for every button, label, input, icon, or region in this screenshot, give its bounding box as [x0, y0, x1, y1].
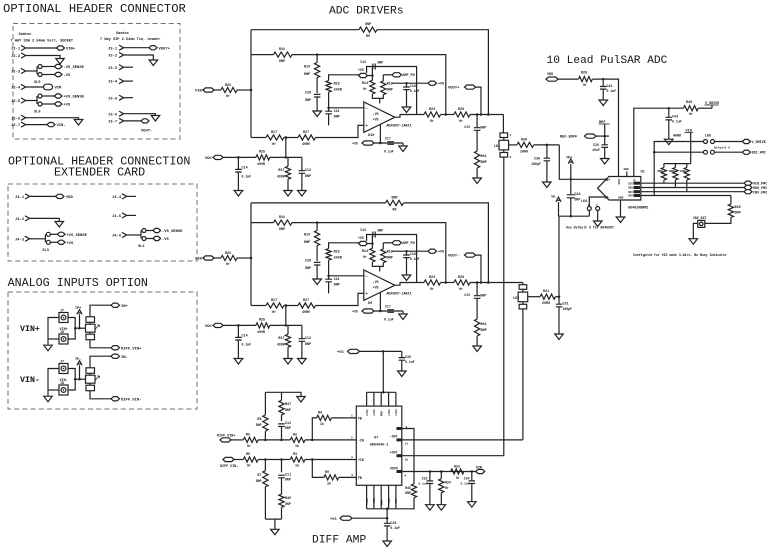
wire to junction [237, 257, 251, 259]
capacitor C17 0.1uF [387, 310, 394, 313]
ground [616, 217, 625, 223]
svg-text:+VS: +VS [337, 351, 344, 355]
svg-text:0r: 0r [583, 83, 587, 88]
svg-text:R25: R25 [259, 319, 265, 323]
wire upper network rail to gnd [265, 392, 301, 396]
svg-text:499R: 499R [277, 175, 285, 179]
svg-text:R7: R7 [257, 474, 261, 478]
svg-text:DNP: DNP [256, 423, 262, 427]
capacitor C17 0.1uF [387, 142, 394, 145]
svg-text:VIN+: VIN+ [66, 48, 76, 52]
svg-text:J3-2: J3-2 [108, 55, 118, 59]
ground [594, 221, 603, 227]
wire junction up to lower row [285, 138, 287, 158]
capacitor C20 DNP [314, 262, 321, 265]
svg-text:IN+: IN+ [121, 305, 129, 309]
svg-text:ADA4807-1ARJZ: ADA4807-1ARJZ [386, 123, 411, 127]
pin SDI_FMC [742, 150, 750, 154]
svg-text:FB: FB [358, 416, 362, 420]
svg-text:0r: 0r [445, 486, 449, 490]
wire [352, 517, 387, 519]
svg-text:-VS: -VS [63, 74, 71, 78]
svg-text:+VS_SENSE: +VS_SENSE [63, 96, 84, 100]
svg-text:J2-4: J2-4 [11, 87, 21, 91]
pin -VS [153, 236, 161, 240]
svg-text:C19: C19 [464, 293, 470, 297]
ground [284, 359, 292, 365]
svg-text:TP+: TP+ [566, 157, 572, 161]
node REF [603, 135, 606, 138]
wire [258, 439, 290, 441]
ADC right pins SCK SDO SDI CNV [634, 182, 641, 185]
svg-text:DNP: DNP [391, 196, 397, 200]
svg-text:R17: R17 [271, 131, 277, 135]
svg-text:LK2: LK2 [513, 297, 519, 301]
svg-text:R20: R20 [458, 276, 464, 280]
node input junction [250, 89, 253, 92]
wire VOUT+ down [476, 87, 482, 114]
wire to op-amp - [329, 275, 364, 277]
node C31 [558, 295, 561, 298]
wire R18 top [329, 75, 359, 81]
svg-text:DNP: DNP [680, 170, 686, 173]
svg-text:R15: R15 [387, 251, 393, 255]
capacitor C26 10uF [604, 136, 606, 144]
wire [316, 223, 318, 231]
node inverting input [327, 275, 330, 278]
wire jack left bracket [48, 369, 59, 397]
svg-text:GND: GND [623, 168, 628, 171]
svg-text:DNP: DNP [365, 23, 371, 27]
svg-text:+VS1: +VS1 [366, 409, 369, 416]
svg-text:C19: C19 [464, 125, 470, 129]
svg-text:R6: R6 [246, 433, 250, 437]
IC U7 ADA4940-1 [356, 406, 402, 485]
wire +VS to IC top [382, 351, 384, 392]
wire output node [470, 114, 503, 116]
resistor R23 0r [424, 112, 441, 117]
wire to pin 1 [331, 417, 356, 419]
svg-text:R27: R27 [303, 131, 309, 135]
solder pad [142, 229, 146, 233]
wire to IN+ [90, 305, 111, 317]
svg-text:+VS: +VS [66, 242, 74, 246]
wire pin8 to bottom rail via R45 [402, 429, 414, 484]
svg-text:J2-2: J2-2 [11, 55, 21, 59]
wire +VS rail to hexagon [392, 250, 428, 252]
svg-text:VOC: VOC [205, 325, 213, 329]
svg-text:C13: C13 [305, 169, 311, 173]
IC pin 10 +OUT [397, 454, 403, 457]
capacitor C43 0.1uF [668, 108, 670, 117]
solder pad [38, 65, 42, 69]
svg-text:C32: C32 [422, 477, 428, 481]
capacitor C32 0.1uF [429, 472, 431, 481]
svg-text:DNP: DNP [387, 89, 393, 93]
connector jack VIN+ B [59, 334, 68, 344]
svg-text:DNP: DNP [575, 198, 581, 202]
svg-text:TP-: TP- [75, 358, 81, 362]
resistor R37 DNP pullup [686, 164, 688, 168]
wire [406, 258, 408, 275]
solder pad [38, 94, 42, 98]
wire [237, 172, 239, 191]
capacitor C16 DNP [371, 235, 373, 244]
capacitor C30 180pF [544, 158, 551, 161]
wire [401, 360, 403, 371]
resistor R5 0r [243, 457, 258, 462]
wire LK1 bottom rail to diff amp +OUT [503, 158, 505, 456]
wire [668, 120, 670, 139]
svg-text:J4-2: J4-2 [15, 218, 25, 222]
svg-text:DNP: DNP [279, 60, 285, 64]
wire lower row [251, 305, 266, 307]
svg-text:R8: R8 [257, 418, 261, 422]
svg-text:+VS: +VS [373, 118, 379, 122]
svg-text:DNP: DNP [378, 229, 384, 233]
svg-text:0r: 0r [247, 444, 251, 449]
node fb [445, 281, 448, 284]
resistor R16 DNP [274, 52, 293, 57]
svg-text:+VS: +VS [330, 518, 337, 522]
resistor R33 0r [451, 469, 464, 474]
link resistor top [86, 317, 95, 323]
resistor R31 20R0 [540, 294, 555, 299]
node TP IN+ [570, 178, 573, 181]
capacitor C44 DNP [570, 179, 572, 194]
wire [214, 257, 221, 259]
svg-text:R16: R16 [279, 48, 285, 52]
wire [270, 156, 302, 158]
wire pullup rail [664, 163, 691, 165]
svg-text:U1: U1 [641, 171, 645, 175]
wire [316, 265, 318, 279]
svg-text:R18: R18 [334, 83, 340, 87]
pin VIN- [47, 123, 55, 127]
svg-text:Use Default 0 for AD4000f.: Use Default 0 for AD4000f. [566, 226, 616, 230]
wire LK4 pad1 stem [588, 211, 590, 217]
svg-text:SL3: SL3 [42, 249, 48, 253]
svg-text:C21: C21 [334, 110, 340, 114]
svg-text:-VS_SENSE: -VS_SENSE [63, 66, 84, 70]
link center [86, 324, 96, 332]
svg-text:DIFF AMP: DIFF AMP [312, 535, 366, 547]
wire lower row [251, 137, 266, 139]
svg-text:+VS: +VS [352, 310, 358, 314]
link resistor top [86, 368, 95, 374]
svg-text:-VS: -VS [373, 112, 379, 116]
capacitor C41 0.1uF [600, 87, 607, 90]
wire LK5 left pads to SDI bus [654, 142, 703, 196]
resistor R36 DNP pullup [674, 164, 676, 168]
dashed box analog inputs [8, 292, 197, 409]
svg-text:10: 10 [405, 459, 409, 462]
ground [149, 60, 158, 66]
resistor R27 49R9 [298, 303, 316, 308]
svg-text:0.1uF: 0.1uF [390, 526, 400, 530]
resistor R17 0r [266, 303, 284, 308]
wire VIO stub [690, 133, 692, 164]
pin DIFF_VIN+ [111, 346, 120, 350]
svg-text:0r: 0r [459, 119, 463, 124]
wire [374, 142, 403, 144]
resistor R17 0r [266, 135, 284, 140]
wire [570, 198, 572, 216]
wire [596, 135, 609, 137]
connector jack VIN- B [59, 385, 68, 395]
capacitor C36 0.1uF [401, 351, 403, 357]
resistor R47 DNP [281, 392, 283, 400]
svg-text:C17: C17 [385, 305, 391, 309]
svg-text:49R9: 49R9 [302, 311, 310, 315]
svg-text:0.1uF: 0.1uF [384, 150, 394, 154]
wire output node [470, 282, 523, 284]
node C30 [546, 144, 549, 147]
ADC GND top stub [626, 172, 628, 177]
resistor R14 0r [371, 76, 373, 81]
wire to pin 2 [305, 439, 356, 441]
svg-text:-VS3: -VS3 [388, 498, 391, 505]
svg-text:R2: R2 [293, 433, 297, 437]
wire fb row to output node [317, 223, 446, 283]
svg-text:VCM: VCM [476, 467, 482, 471]
svg-text:J3-6: J3-6 [108, 113, 118, 117]
svg-text:ANALOG INPUTS OPTION: ANALOG INPUTS OPTION [8, 276, 148, 290]
svg-text:C30: C30 [534, 158, 540, 162]
wire [284, 137, 298, 139]
svg-text:IN-: IN- [121, 356, 128, 360]
wire top feedback row [251, 202, 386, 204]
ground [234, 191, 243, 197]
resistor R20 0r [454, 112, 470, 117]
svg-text:0r: 0r [272, 142, 276, 147]
wire J4-3 [30, 238, 46, 240]
node [285, 156, 288, 159]
wire [214, 89, 221, 91]
wire J2-4 [26, 86, 44, 88]
wire [383, 74, 392, 76]
pin AMP_PD [392, 241, 401, 245]
node C41 [602, 78, 605, 81]
wire IC top rail [367, 391, 396, 393]
svg-text:0.1uF: 0.1uF [242, 343, 252, 347]
svg-text:R4: R4 [318, 411, 322, 415]
wire to links [80, 378, 86, 380]
wire LK5 row2 to SDI_FMC pin [715, 151, 743, 153]
solder pad [46, 240, 50, 244]
svg-text:U10: U10 [368, 134, 374, 138]
svg-text:1k: 1k [295, 464, 299, 469]
svg-text:R26: R26 [225, 84, 231, 88]
svg-text:+VS2: +VS2 [373, 409, 376, 416]
svg-text:J3-7: J3-7 [108, 121, 118, 125]
wire [316, 55, 318, 63]
svg-text:C13: C13 [305, 337, 311, 341]
wire [292, 54, 317, 56]
ground [468, 502, 477, 508]
pin V_DRIVE [742, 139, 750, 143]
svg-text:VIN-: VIN- [20, 376, 40, 385]
svg-text:ADA4940-1: ADA4940-1 [370, 444, 388, 448]
wire [231, 439, 243, 441]
svg-text:J2-1: J2-1 [11, 48, 21, 52]
svg-text:3: 3 [510, 156, 512, 159]
svg-text:R9: R9 [325, 471, 329, 475]
svg-text:AD4020BRMZ: AD4020BRMZ [628, 207, 648, 211]
wire to op-amp + [316, 125, 364, 137]
svg-text:+: + [365, 292, 368, 297]
svg-text:DIFF_VIN-: DIFF_VIN- [121, 398, 142, 402]
svg-text:VDD: VDD [618, 179, 621, 185]
wire LK1 middle to R30 [509, 144, 517, 146]
wire lower network rail to gnd [265, 518, 281, 520]
capacitor C34 0.1uF [471, 472, 473, 481]
pin SDO_FMC [744, 185, 752, 189]
jumper LK1 [500, 133, 508, 138]
svg-text:SL4: SL4 [138, 245, 145, 249]
test point TP+ [77, 310, 82, 315]
solder pad [142, 237, 146, 241]
svg-text:VOC: VOC [205, 157, 213, 161]
pin +VS [57, 240, 65, 244]
svg-text:R9: R9 [366, 35, 370, 39]
jumper LK2 [519, 285, 527, 290]
ground [297, 397, 305, 403]
svg-text:R17: R17 [271, 299, 277, 303]
svg-text:+: + [365, 124, 368, 129]
wire IC bottom rail [367, 508, 396, 510]
svg-text:IN-: IN- [605, 196, 611, 200]
svg-text:R19: R19 [304, 66, 310, 70]
IC pin 11 -OUT [397, 438, 403, 441]
ground [689, 239, 698, 245]
svg-text:ADA4807-1ARJZ: ADA4807-1ARJZ [386, 291, 411, 295]
wire PD pin stub [379, 98, 381, 103]
svg-text:TP-: TP- [551, 196, 557, 200]
svg-text:0r: 0r [363, 255, 367, 260]
resistor R20 0r [454, 280, 470, 285]
wire to DIFF_VIN- [90, 391, 111, 399]
resistor R7 DNP [264, 460, 266, 471]
svg-text:DNP: DNP [285, 502, 291, 506]
capacitor C13 DNP [301, 157, 303, 170]
wire [292, 222, 317, 224]
capacitor C14 0.1uF [235, 337, 242, 340]
wire J2-3 [26, 70, 37, 72]
svg-text:Samtec: Samtec [116, 32, 129, 36]
svg-text:R20: R20 [458, 108, 464, 112]
pin DIFF_VIN- [111, 397, 120, 401]
ground [298, 191, 307, 197]
svg-text:J2-3: J2-3 [11, 71, 21, 75]
wire LK4 to ADC IN- [589, 197, 606, 207]
svg-text:VIN-: VIN- [60, 379, 68, 383]
svg-text:DNP: DNP [279, 228, 285, 232]
svg-text:7 WAY SSW 2.54mm Vert, SOCKET: 7 WAY SSW 2.54mm Vert, SOCKET [11, 39, 74, 44]
svg-text:R41: R41 [481, 323, 487, 327]
svg-text:J3-3: J3-3 [108, 67, 118, 71]
wire to DIFF_VIN+ [90, 340, 111, 348]
wire TP down [79, 365, 81, 379]
wire [558, 307, 560, 334]
svg-text:R40: R40 [686, 101, 692, 105]
pin SCK_FMC [744, 181, 752, 185]
capacitor C12 DNP [281, 415, 283, 421]
svg-text:0r: 0r [430, 119, 434, 124]
svg-text:ADC DRIVERs: ADC DRIVERs [329, 6, 404, 18]
ground [402, 275, 411, 281]
wire PD pin stub [379, 266, 381, 271]
wire power box outline [367, 67, 417, 115]
pin +VS below [362, 309, 374, 313]
svg-text:R15: R15 [387, 83, 393, 87]
IC pin 9 VOCM [397, 470, 403, 473]
svg-text:VOUT+: VOUT+ [448, 87, 460, 91]
pin VOUT+ [149, 46, 157, 50]
wire [359, 350, 401, 352]
svg-text:0.1uF: 0.1uF [410, 257, 420, 261]
ground [601, 159, 610, 165]
svg-text:DNP: DNP [481, 329, 487, 333]
svg-text:C31: C31 [563, 303, 569, 307]
resistor R38 DNP [730, 196, 732, 205]
wire [328, 92, 330, 111]
wire [476, 336, 478, 346]
svg-text:1: 1 [510, 134, 512, 137]
wire [476, 130, 478, 151]
wire [281, 478, 283, 494]
svg-text:R5: R5 [246, 453, 250, 457]
svg-text:V_DRIVE: V_DRIVE [752, 141, 766, 145]
capacitor C18 0.1uF [406, 251, 408, 255]
wire J4-2 to gnd [30, 218, 60, 221]
wire R14 R15 bottoms [372, 262, 383, 266]
wire J2-5 [26, 100, 37, 102]
svg-text:R34: R34 [445, 481, 451, 485]
svg-text:-VS: -VS [162, 238, 170, 242]
solder pad [38, 102, 42, 106]
svg-text:+VS: +VS [438, 251, 444, 255]
wire top feedback row [251, 29, 359, 31]
ground [473, 346, 482, 352]
wire [316, 78, 318, 93]
capacitor C18 0.1uF [406, 83, 408, 87]
link resistor bottom [86, 334, 95, 340]
capacitor C20 DNP [314, 94, 321, 97]
svg-text:DNP: DNP [481, 126, 487, 130]
pin -VS_SENSE [54, 64, 62, 68]
wire [602, 89, 604, 100]
svg-text:J3-1: J3-1 [108, 47, 118, 51]
svg-text:DNP: DNP [304, 241, 310, 245]
wire to IN- [90, 356, 111, 368]
svg-text:SDO: SDO [628, 187, 633, 190]
ground [44, 345, 52, 351]
wire [237, 157, 239, 169]
svg-text:DNP: DNP [304, 73, 310, 77]
wire [374, 310, 403, 312]
pin +VS [54, 102, 62, 106]
svg-text:VIN+: VIN+ [20, 325, 40, 334]
node C14 tap [237, 156, 240, 159]
svg-text:R47: R47 [285, 403, 291, 407]
op-amp U9 [364, 270, 395, 300]
svg-text:R27: R27 [303, 299, 309, 303]
svg-text:−: − [365, 106, 368, 111]
capacitor C31 180pF [558, 297, 560, 304]
resistor R37 499R [287, 157, 289, 166]
svg-text:DNP: DNP [481, 161, 487, 165]
